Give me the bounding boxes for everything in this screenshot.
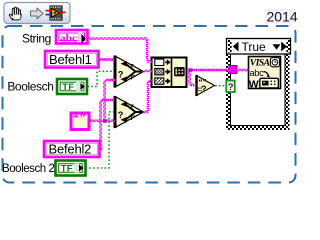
concatenate strings node [152, 58, 187, 88]
selection marquee (dashed blue rounded rect) [3, 26, 296, 183]
VISA Write VI icon [249, 57, 281, 91]
svg-text:W: W [249, 79, 259, 91]
empty string constant [71, 112, 89, 129]
select node 1 (Select t/s/f) [114, 56, 144, 88]
arrow tool icon [31, 8, 44, 19]
svg-text:Boolesch: Boolesch [7, 79, 53, 93]
wire: select1 out to concat row2 [143, 70, 152, 72]
case structure border [226, 46, 290, 130]
case selector ? terminal [226, 81, 234, 93]
empty string? node [195, 75, 214, 96]
svg-text:TF: TF [61, 164, 73, 175]
case tunnel (string) [229, 66, 237, 74]
wire: empty const to select1 f and select2 f, junction [89, 120, 115, 122]
svg-text:Befehl2: Befehl2 [49, 141, 92, 156]
wire: empty? out to selector terminal [215, 85, 226, 87]
svg-text:?: ? [228, 82, 234, 93]
wire: tunnel to VISA icon [237, 69, 249, 71]
boolean terminal Boolesch (TF) [57, 79, 87, 94]
svg-text:?: ? [201, 84, 207, 94]
svg-text:F: F [131, 115, 135, 122]
wire: Befehl2 to select2 t [100, 148, 104, 150]
string control terminal abc [56, 30, 88, 45]
svg-text:True: True [242, 40, 267, 54]
string constant Befehl2 [44, 141, 100, 157]
svg-text:?: ? [118, 110, 124, 120]
toolbar palette [4, 3, 70, 24]
boolean terminal Boolesch 2 (TF) [56, 161, 86, 176]
svg-text:2014: 2014 [267, 8, 298, 24]
svg-text:Befehl1: Befehl1 [49, 52, 92, 67]
svg-text:abc: abc [250, 68, 265, 78]
case selector label True [227, 39, 291, 55]
svg-text:F: F [131, 75, 135, 82]
svg-text:TF: TF [62, 82, 74, 93]
svg-text:Boolesch 2: Boolesch 2 [2, 163, 54, 175]
string constant Befehl1 [45, 51, 99, 68]
operate-value hand tool icon [9, 7, 21, 20]
wire: concat out to tunnel, junction to empty? node [187, 69, 230, 71]
wire: Boolesch to select1 s [88, 71, 115, 86]
year label 2014 [265, 8, 298, 24]
select node 2 (Select t/s/f) [114, 96, 144, 128]
wire: select2 out to concat row3 [143, 111, 149, 113]
svg-text:String: String [22, 31, 51, 45]
wire: Boolesch 2 to select2 s [86, 112, 115, 168]
wire: Befehl1 to select1 t [99, 59, 115, 61]
LabVIEW VI icon [46, 6, 66, 20]
wire: String terminal to concat row1 [86, 38, 147, 40]
svg-text:“ ”: “ ” [73, 112, 86, 124]
svg-text:?: ? [118, 70, 124, 80]
